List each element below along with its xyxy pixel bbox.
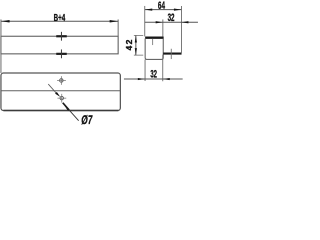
svg-text:64: 64 [158, 0, 166, 11]
leader line for hole diameter [48, 84, 57, 94]
hole H1 [60, 79, 64, 83]
end view: square tube outline [145, 38, 163, 59]
extension line x=162.4 lower [162, 55, 164, 82]
hole H2 [60, 96, 64, 100]
end view: bar B2 edge flange [163, 52, 181, 54]
svg-text:B+4: B+4 [54, 11, 66, 23]
svg-text:4: 4 [124, 46, 134, 51]
svg-text:2: 2 [124, 39, 134, 44]
dimension 42 extension bottom [134, 54, 143, 56]
bar B2 bend line [1, 90, 120, 92]
dimension B+4 left arrow [1, 20, 10, 22]
weld mark bottom of B1 [56, 53, 67, 55]
dimension 64 line [145, 9, 182, 11]
bar B1 top view outline [1, 36, 118, 54]
svg-text:32: 32 [150, 68, 157, 80]
wire extension line right [117, 19, 119, 36]
dimension B+4 right arrow [110, 20, 119, 22]
weld mark top of B1 [56, 35, 67, 37]
dimension 42 extension top [134, 34, 143, 36]
extension line x=144.5 upper [144, 6, 146, 37]
dimension 32 top arrows [156, 21, 163, 23]
end view: weld hole centerline [152, 39, 154, 45]
svg-text:32: 32 [168, 11, 175, 23]
end view: bar B1 edge strip [145, 36, 164, 38]
extension line x=181 [180, 6, 182, 53]
dimension B+4 line [1, 20, 118, 22]
svg-text:Ø7: Ø7 [80, 113, 93, 127]
extension line x=162.4 upper [162, 19, 164, 36]
dimension 32 bottom arrows [138, 78, 145, 80]
dimension 32 top line [145, 21, 198, 23]
bar B2 bottom edge emphasized [3, 110, 118, 112]
dimension 42 line [135, 35, 137, 55]
dimension 42 arrows [135, 35, 137, 42]
bar B2 front view outline [1, 73, 120, 111]
end view: flange hole centerline [170, 49, 172, 59]
dimension 32 bottom line [124, 78, 183, 80]
extension line x=144.5 lower [144, 59, 146, 81]
dimension 64 arrows [145, 9, 153, 11]
wire extension line left [0, 19, 2, 73]
